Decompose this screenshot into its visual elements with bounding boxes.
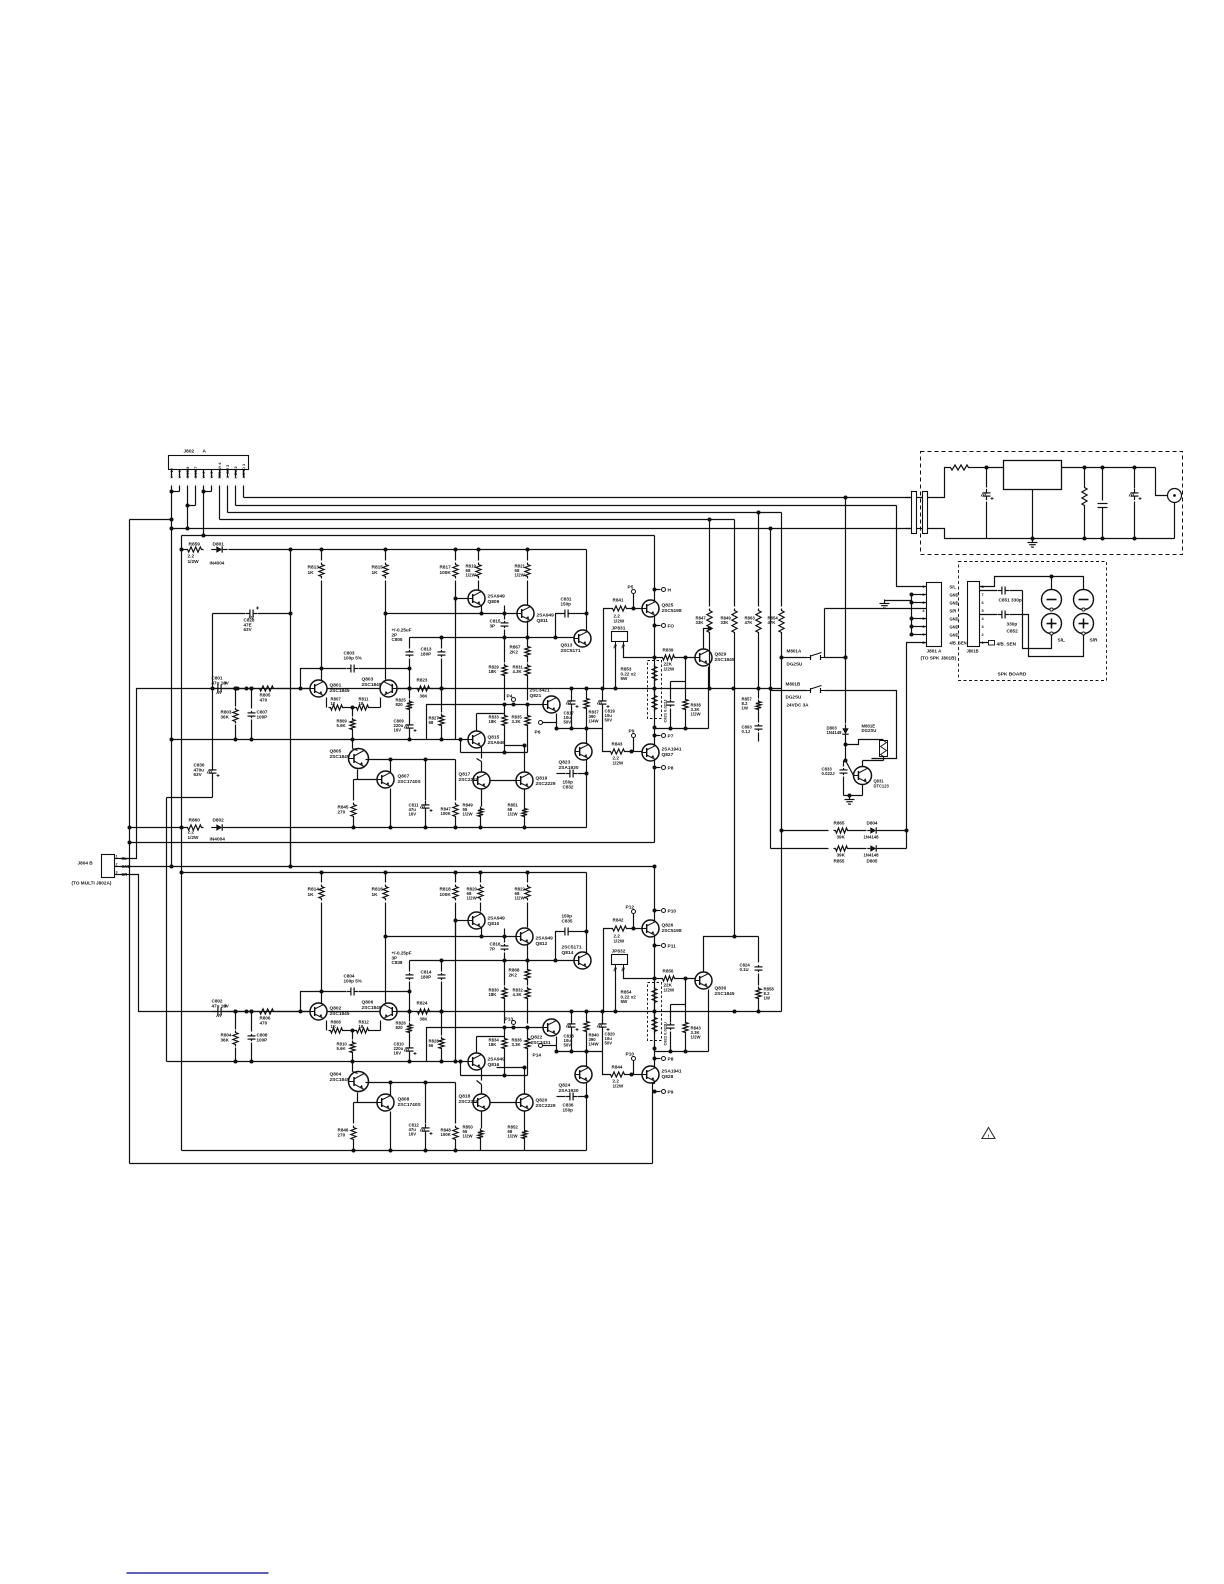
transistor Q818 2SC2229 [473, 1094, 490, 1111]
svg-text:2SA949: 2SA949 [488, 916, 506, 922]
capacitor C832 150p [557, 773, 566, 775]
resistor R809 5.6K [351, 706, 355, 710]
svg-text:1W: 1W [742, 706, 749, 711]
wire outer bottom y1163 [130, 1163, 653, 1165]
svg-text:Q821: Q821 [530, 693, 542, 699]
capacitor C893 0.1J [758, 724, 760, 726]
wire Q805 Q807 bias [357, 770, 359, 780]
wire rail y1061 [167, 1061, 456, 1063]
wire Q807 emitter drop [390, 789, 392, 828]
resistor R863 47K [758, 513, 760, 607]
svg-text:50V: 50V [564, 1043, 572, 1048]
svg-text:1N4148: 1N4148 [864, 853, 880, 858]
wire Q810 emitter [481, 928, 483, 937]
transistor Q820 2SC2229 [516, 1094, 533, 1111]
svg-text:C835: C835 [562, 918, 573, 923]
power supply block box [921, 452, 1183, 555]
transistor Q819 2SC2229 [516, 772, 533, 789]
svg-text:270: 270 [338, 1132, 346, 1137]
svg-text:P8: P8 [668, 1057, 674, 1063]
svg-text:C832: C832 [563, 784, 574, 789]
svg-text:2SC1845: 2SC1845 [715, 991, 735, 997]
svg-text:R839: R839 [663, 648, 674, 653]
jack DC output [1156, 468, 1168, 496]
transistor Q810 2SA949 [468, 912, 485, 929]
wire C830 bottom to x166 [167, 797, 213, 799]
wire y613 link [386, 613, 517, 615]
svg-text:Q807: Q807 [398, 774, 410, 780]
svg-text:1/2W: 1/2W [188, 835, 200, 840]
svg-text:DTC123: DTC123 [874, 783, 890, 788]
wire Q830 emitter [708, 990, 710, 1052]
wire PSU input [928, 468, 949, 498]
svg-text:820: 820 [396, 1025, 404, 1030]
svg-text:JP831: JP831 [612, 626, 626, 632]
wire Q807 collector [390, 760, 392, 773]
svg-text:Q808: Q808 [398, 1097, 410, 1103]
svg-text:GND: GND [950, 617, 959, 622]
wire Q821 emitter [556, 714, 558, 729]
capacitor C817 10u 50V [570, 687, 574, 691]
resistor R824 36K [398, 1011, 414, 1013]
resistor R858 8.2 1W [758, 974, 760, 986]
wire Q815 links [481, 747, 483, 759]
wire Q821 base bias y704 [427, 705, 543, 740]
svg-text:1K: 1K [331, 1024, 337, 1029]
transistor Q827 2SA1941 [642, 744, 659, 761]
svg-text:R841: R841 [613, 598, 624, 603]
svg-text:18K: 18K [489, 992, 498, 997]
svg-text:36K: 36K [221, 1037, 230, 1042]
svg-text:4.3K: 4.3K [513, 669, 523, 674]
svg-text:2SC1845: 2SC1845 [362, 1005, 382, 1011]
transistor Q808 2SC1740S [377, 1094, 394, 1111]
resistor R835 3.3K [527, 705, 529, 714]
svg-text:SPK BOARD: SPK BOARD [998, 672, 1027, 678]
resistor R843 2.2 1/2W [609, 749, 627, 754]
svg-text:2SC1845: 2SC1845 [330, 1077, 350, 1083]
resistor R804 36K [235, 1012, 237, 1030]
svg-text:18K: 18K [489, 669, 498, 674]
terminal P10 [655, 910, 661, 912]
terminal P10b [632, 1057, 636, 1061]
svg-text:R843: R843 [612, 742, 623, 747]
svg-text:Q829: Q829 [715, 652, 727, 658]
svg-text:18K: 18K [489, 719, 498, 724]
svg-text:470: 470 [260, 697, 268, 702]
svg-text:56: 56 [429, 1043, 434, 1048]
wire base link y960 [410, 960, 575, 962]
svg-text:3.3K: 3.3K [512, 719, 522, 724]
resistor R855 39K [771, 848, 829, 850]
svg-text:GND: GND [950, 593, 959, 598]
resistor R826 820 [408, 1010, 412, 1014]
wire input SL [121, 689, 213, 859]
svg-text:63V: 63V [244, 627, 253, 632]
svg-text:DG2SU: DG2SU [787, 662, 804, 667]
capacitor C801 47u 16V [213, 688, 215, 690]
wire left rail x181 [181, 536, 183, 1151]
svg-text:270: 270 [338, 809, 346, 814]
transistor Q806 2SC1845 [380, 1003, 397, 1020]
svg-text:2K2: 2K2 [510, 649, 519, 654]
wire left rail x129 [129, 520, 131, 1164]
svg-text:5.6K: 5.6K [337, 1046, 347, 1051]
wire output col middle [654, 616, 656, 843]
svg-text:C838: C838 [392, 960, 403, 965]
footer rule [127, 1572, 269, 1574]
resistor R844 2.2 1/2W [609, 1072, 627, 1077]
svg-text:2SA1930: 2SA1930 [559, 765, 579, 771]
diode D805 1N4148 [850, 848, 867, 850]
svg-text:0.1J: 0.1J [742, 729, 751, 734]
wire lower output col [654, 867, 656, 922]
svg-text:2.2: 2.2 [188, 830, 195, 835]
capacitor C808 100P [251, 1012, 253, 1032]
svg-text:H: H [668, 588, 672, 594]
svg-text:0.1U: 0.1U [740, 967, 749, 972]
terminal P11 [655, 945, 661, 947]
resistor R821 68 1/2W [527, 550, 529, 561]
svg-text:2SA949: 2SA949 [537, 613, 555, 619]
wire PSU output [1062, 467, 1156, 469]
svg-text:1K: 1K [372, 570, 379, 576]
svg-text:S/L: S/L [950, 585, 957, 590]
svg-text:18: 18 [359, 701, 364, 706]
svg-text:1/2W: 1/2W [614, 938, 625, 943]
svg-text:Q822: Q822 [531, 1035, 543, 1041]
capacitor C820 10u 50V [602, 1012, 604, 1021]
terminal P12 [632, 910, 636, 914]
resistor R819 68 1/2W [478, 550, 480, 561]
svg-text:C851 330p: C851 330p [999, 598, 1022, 603]
wire 4/B_SEN down [907, 643, 927, 849]
svg-text:2SA1941: 2SA1941 [662, 1069, 682, 1075]
svg-text:16V: 16V [394, 1051, 402, 1056]
wire inner bottom y1150 [182, 1150, 587, 1152]
resistor R851 68 1/2W [524, 790, 526, 807]
svg-text:4.3K: 4.3K [513, 992, 523, 997]
wire Q824 emitter drop [586, 1083, 588, 1151]
transistor Q824 2SA1930 [586, 1052, 588, 1067]
svg-text:Q819: Q819 [536, 776, 548, 782]
svg-text:GND: GND [122, 864, 131, 869]
speaker board box [959, 562, 1107, 681]
svg-text:1/2W: 1/2W [463, 812, 474, 817]
capacitor C809 220u 16V [409, 719, 411, 722]
transistor Q825 2SC5198 [642, 600, 659, 617]
svg-text:1/2W: 1/2W [664, 666, 675, 671]
svg-text:100K: 100K [440, 892, 452, 897]
capacitor C807 100P [251, 689, 253, 709]
svg-text:3: 3 [116, 871, 118, 875]
svg-text:P12: P12 [626, 905, 635, 911]
wire R843 riser x685 [685, 979, 687, 1005]
capacitor C830 470u 63V [212, 614, 214, 767]
wire top rail upper y549 [229, 549, 587, 551]
svg-text:47K: 47K [745, 620, 754, 625]
wire Q804 Q808 bias [357, 1093, 359, 1103]
wire Q809 emitter [481, 606, 483, 614]
svg-text:R817: R817 [440, 565, 452, 570]
svg-text:GND: GND [950, 601, 959, 606]
terminal P5 [632, 590, 636, 594]
svg-text:M801A: M801A [787, 649, 802, 654]
resistor R846 270 [353, 1103, 355, 1124]
svg-text:2SC3421: 2SC3421 [530, 688, 550, 694]
svg-text:3P: 3P [490, 623, 496, 628]
svg-text:4/B_SEN: 4/B_SEN [950, 641, 967, 646]
svg-text:2K2: 2K2 [509, 972, 518, 977]
capacitor C812 47u 16V [425, 1083, 427, 1124]
svg-text:5W: 5W [621, 999, 629, 1004]
wire Q813 collector x586 [586, 550, 588, 632]
resistor R818 100K [455, 873, 457, 883]
svg-text:J801B: J801B [967, 649, 979, 654]
wire Q830 collector [704, 937, 735, 972]
wire bus3 y512 [228, 512, 782, 514]
wire M801A S/R riser [824, 609, 826, 658]
svg-text:2SC5198: 2SC5198 [662, 608, 682, 614]
svg-text:100K: 100K [440, 570, 452, 575]
svg-text:5.6K: 5.6K [337, 723, 347, 728]
svg-text:R823: R823 [417, 678, 428, 683]
wire left rail x166 [166, 798, 168, 1062]
resistor R867 2K2 [527, 621, 529, 645]
svg-text:Q801: Q801 [330, 683, 342, 689]
svg-text:Q815: Q815 [488, 735, 500, 741]
svg-text:1: 1 [116, 855, 118, 859]
capacitor C852 330p [980, 614, 998, 616]
svg-text:IN4004: IN4004 [210, 837, 226, 843]
svg-text:JP832: JP832 [612, 949, 626, 955]
transistor Q821 2SC3421 [543, 696, 560, 713]
svg-text:1/2W: 1/2W [466, 573, 477, 578]
svg-text:7P: 7P [490, 946, 496, 951]
transistor Q814 2SC5171 [574, 952, 591, 969]
svg-text:C805: C805 [392, 637, 403, 642]
svg-text:RELAY 4: RELAY 4 [217, 462, 222, 479]
transistor Q807 2SC1740S [377, 771, 394, 788]
svg-text:2SC2229: 2SC2229 [536, 781, 556, 787]
svg-text:100K: 100K [441, 1132, 452, 1137]
svg-text:R855: R855 [834, 859, 845, 864]
svg-text:Q818: Q818 [459, 1094, 471, 1100]
terminal P4 [512, 698, 516, 702]
svg-text:Q824: Q824 [559, 1083, 571, 1089]
wire rail y739 [172, 739, 456, 741]
svg-text:2SC1845: 2SC1845 [330, 1011, 350, 1017]
svg-text:P9: P9 [668, 1090, 674, 1096]
wire R838 riser x685 [685, 658, 687, 682]
resistor R854 47K [781, 513, 783, 607]
svg-text:47u 16V: 47u 16V [212, 681, 230, 686]
svg-text:R856: R856 [663, 969, 674, 974]
capacitor C805 2P [409, 638, 411, 649]
resistor R848 100K [455, 1083, 457, 1124]
svg-text:P5: P5 [628, 585, 634, 591]
resistor R831 4.3K [527, 659, 529, 663]
wire gnd feed y866 [121, 866, 655, 868]
resistor R836 3.3K [527, 1028, 529, 1037]
resistor R838 3.3K 1/2W [685, 682, 687, 698]
svg-text:Q805: Q805 [330, 749, 342, 755]
capacitor C819 10u 50V [602, 689, 604, 698]
capacitor C838 3P [409, 961, 411, 972]
resistor R812 18 [355, 1028, 371, 1033]
diode D803 1N4148 [845, 724, 847, 728]
wire R843 riser x602 [603, 729, 609, 752]
svg-text:J802: J802 [184, 449, 195, 455]
capacitor C802 47u 16V [213, 1011, 215, 1013]
svg-text:100P: 100P [257, 714, 268, 719]
svg-text:1N4148: 1N4148 [827, 730, 843, 735]
svg-text:GND 7: GND 7 [193, 467, 198, 479]
resistor R816 1K [385, 873, 387, 883]
resistor R868 2K2 [527, 944, 529, 968]
capacitor PSU C1 electrolytic [986, 468, 988, 488]
transistor Q826 2SC5198 [642, 920, 659, 937]
svg-text:GND: GND [950, 625, 959, 630]
transistor Q801 2SC1845 [310, 680, 327, 697]
plug 4/B_SEN [980, 642, 989, 644]
svg-text:S/L: S/L [1058, 638, 1066, 644]
svg-text:47K: 47K [768, 620, 777, 625]
wire speaker top feed [980, 577, 1084, 590]
resistor R850 55 1/2W [481, 1112, 483, 1129]
svg-text:V- 6: V- 6 [201, 471, 206, 479]
svg-text:33K: 33K [721, 620, 730, 625]
transistor Q805 2SC1845 [349, 749, 369, 769]
svg-text:33K: 33K [696, 620, 705, 625]
svg-text:I_BU 2: I_BU 2 [233, 466, 238, 479]
wire S/R drop [825, 608, 927, 610]
svg-text:Q814: Q814 [562, 950, 574, 956]
transistor Q831 DTC123 [854, 767, 872, 785]
svg-text:P7: P7 [668, 734, 674, 740]
wire bus5 y528 [172, 528, 911, 530]
svg-text:150p: 150p [561, 601, 572, 606]
svg-text:C822 0.022U: C822 0.022U [663, 1022, 668, 1046]
wire x770 drop [770, 529, 772, 849]
resistor R827 68 [441, 689, 443, 713]
svg-text:R818: R818 [440, 887, 452, 892]
wire y728 link [557, 728, 603, 730]
wire bus1 y497 [244, 497, 911, 499]
svg-text:DG2SU: DG2SU [786, 695, 803, 700]
svg-text:2SA1930: 2SA1930 [559, 1088, 579, 1094]
svg-text:M801B: M801B [786, 682, 801, 687]
svg-text:1/2W: 1/2W [691, 1035, 702, 1040]
svg-text:1/2W: 1/2W [515, 573, 526, 578]
svg-text:47u 16V: 47u 16V [212, 1004, 230, 1009]
connector CN to PSU [912, 492, 917, 534]
svg-text:J801 A: J801 A [927, 649, 943, 654]
resistor R817 100K [455, 550, 457, 561]
resistor R852 68 1/2W [524, 1112, 526, 1129]
resistor R849 33K [734, 520, 736, 607]
transistor Q816 2SA949 [468, 1053, 485, 1070]
resistor R814 1K [321, 873, 323, 883]
wire J802 pin drops [243, 486, 245, 498]
svg-text:2SA1941: 2SA1941 [662, 747, 682, 753]
capacitor PSU C3 electrolytic [1134, 468, 1136, 489]
wire x781 long drop [781, 690, 783, 1012]
transistor Q815 2SA949 [468, 731, 485, 748]
wire Q808 collector [390, 1083, 392, 1096]
svg-text:R824: R824 [417, 1001, 428, 1006]
resistor R828 56 [441, 1012, 443, 1036]
terminal P8 [655, 767, 661, 769]
svg-text:Q809: Q809 [488, 599, 500, 605]
diode D801 IN4004 [211, 549, 216, 551]
resistor R865 39K [782, 830, 829, 832]
svg-text:Q826: Q826 [662, 923, 674, 929]
wire Q822 emitter [556, 1037, 558, 1052]
transistor Q817 2SC2229 [473, 772, 490, 789]
svg-text:Q830: Q830 [715, 986, 727, 992]
svg-text:GND: GND [950, 633, 959, 638]
svg-text:180P: 180P [421, 651, 432, 656]
svg-text:C821 0.022J: C821 0.022J [663, 700, 668, 723]
terminal FO [655, 625, 661, 627]
resistor R810 5.6K [351, 1029, 355, 1033]
resistor R829 18K [504, 638, 506, 663]
wire Q808 emitter drop [390, 1112, 392, 1151]
wire base link y637 [410, 637, 575, 639]
svg-text:2SA949: 2SA949 [488, 740, 506, 746]
speaker S/R minus [1074, 590, 1094, 610]
svg-text:5W: 5W [621, 676, 629, 681]
wire regulator ground pin [1032, 490, 1034, 539]
svg-text:1/2W: 1/2W [508, 1134, 519, 1139]
svg-text:R844: R844 [612, 1065, 623, 1070]
transistor Q830 2SC1845 [695, 972, 712, 989]
svg-text:2: 2 [116, 863, 118, 867]
resistor R808 1K [326, 1021, 328, 1031]
resistor R837 390 1/4W [586, 689, 588, 697]
capacitor C822 0.022U [670, 1005, 672, 1023]
svg-text:2SC2229: 2SC2229 [459, 1099, 479, 1105]
svg-text:R860: R860 [189, 818, 201, 824]
wire speaker bottoms [1023, 591, 1052, 649]
svg-text:R859: R859 [189, 542, 201, 548]
svg-text:2SA949: 2SA949 [488, 594, 506, 600]
svg-text:D802: D802 [213, 818, 225, 823]
svg-text:63V: 63V [194, 772, 203, 777]
svg-text:Q827: Q827 [662, 752, 674, 758]
wire x845 relay drive [845, 498, 847, 724]
resistor R807 10 [326, 698, 328, 708]
resistor R847b 33K [709, 520, 711, 607]
wire y936 link [386, 936, 516, 938]
svg-text:1/2W: 1/2W [463, 1134, 474, 1139]
svg-text:180P: 180P [421, 974, 432, 979]
wire bus6 y535 to output column [182, 535, 655, 537]
resistor R843b 3.3K 1/2W [685, 1005, 687, 1021]
transistor Q812 2SA949 [516, 928, 533, 945]
svg-text:P14: P14 [533, 1053, 542, 1059]
capacitor C815 3P [504, 606, 506, 620]
capacitor C816 7P [504, 929, 506, 943]
resistor R815 1K [385, 550, 387, 561]
svg-text:C852: C852 [1007, 629, 1019, 634]
svg-text:16V: 16V [409, 812, 417, 817]
svg-text:100K: 100K [441, 811, 452, 816]
wire rail y1011 main lower [213, 1011, 782, 1013]
wire x734 lower drop [734, 690, 736, 937]
wire y1075 link [461, 1075, 528, 1077]
